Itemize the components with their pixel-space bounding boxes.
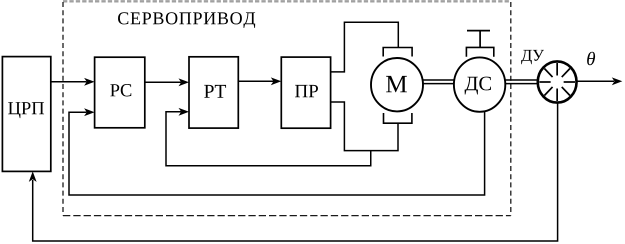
wire current feedback to РТ bbox=[166, 112, 371, 166]
block РС bbox=[95, 57, 145, 128]
wire ДУ output bbox=[577, 80, 614, 82]
wire ЦРП to РС bbox=[51, 81, 87, 83]
wire position feedback from ДУ to ЦРП bbox=[33, 102, 558, 241]
block РТ bbox=[189, 57, 238, 128]
ДС brush bracket bbox=[466, 47, 493, 56]
shaft ДС to ДУ (double line) bbox=[505, 79, 538, 81]
label ДУ bbox=[521, 50, 544, 64]
wire РС to РТ bbox=[145, 81, 181, 83]
dashed servo-drive enclosure, bottom edge bbox=[63, 215, 511, 217]
block ЦРП bbox=[2, 57, 50, 172]
label РТ bbox=[204, 85, 226, 98]
wire РТ to ПР bbox=[238, 80, 273, 82]
motor top brush bracket bbox=[383, 48, 412, 57]
motor bottom brush bracket bbox=[384, 113, 412, 123]
block ПР bbox=[281, 57, 330, 128]
label СЕРВОПРИВОД bbox=[118, 12, 255, 28]
label ДС bbox=[465, 77, 491, 95]
label ПР bbox=[295, 85, 318, 97]
wire speed feedback from ДС to РС bbox=[69, 111, 485, 195]
label ЦРП bbox=[8, 102, 44, 118]
label М bbox=[386, 76, 407, 92]
ДС terminal T bbox=[467, 30, 490, 32]
label РС bbox=[110, 84, 131, 96]
wire ПР upper output to motor top brush bbox=[331, 22, 399, 72]
wire ПР lower output to motor bottom brush bbox=[331, 102, 398, 151]
dashed servo-drive enclosure, right edge bbox=[510, 2, 512, 216]
shaft М to ДС (double line) bbox=[423, 79, 455, 81]
angle sensor ДУ wheel bbox=[538, 61, 577, 102]
dashed servo-drive enclosure, top edge bbox=[63, 0, 511, 2]
tachogenerator ДС circle bbox=[454, 57, 505, 111]
motor M circle bbox=[371, 58, 423, 111]
dashed servo-drive enclosure, left edge bbox=[62, 2, 64, 216]
label θ bbox=[587, 52, 595, 65]
